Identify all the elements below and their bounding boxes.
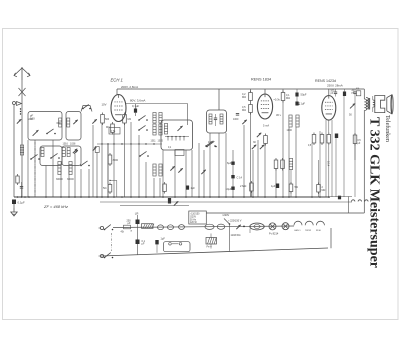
svg-text:µF: µF	[142, 243, 145, 246]
svg-text:30 v: 30 v	[276, 113, 282, 117]
svg-text:3000: 3000	[113, 159, 119, 162]
svg-text:9130: 9130	[316, 230, 322, 232]
svg-text:≈0,3v: ≈0,3v	[274, 98, 281, 102]
svg-text:200V, 2,8mA: 200V, 2,8mA	[121, 85, 138, 89]
svg-text:10,4: 10,4	[327, 161, 331, 167]
svg-text:1011: 1011	[151, 140, 157, 143]
svg-text:1µF: 1µF	[271, 185, 276, 188]
svg-text:250V, 28mA: 250V, 28mA	[327, 84, 343, 88]
svg-text:Fe ≈: Fe ≈	[207, 244, 213, 248]
svg-text:MΩ: MΩ	[242, 109, 246, 112]
svg-text:T 332 GLK Meistersuper: T 332 GLK Meistersuper	[367, 117, 382, 268]
svg-text:1µF: 1µF	[301, 102, 306, 106]
svg-text:120 W: 120 W	[190, 222, 197, 224]
svg-text:78232: 78232	[305, 230, 312, 232]
svg-text:500: 500	[105, 118, 110, 121]
svg-text:/220V: /220V	[190, 217, 196, 219]
svg-text:6µF: 6µF	[227, 161, 232, 165]
svg-text:≈ 220/150 V: ≈ 220/150 V	[228, 220, 242, 223]
svg-text:80V, 3,6mA: 80V, 3,6mA	[130, 99, 145, 103]
svg-text:2 MΩ: 2 MΩ	[240, 184, 246, 188]
svg-text:M2: M2	[128, 118, 132, 121]
svg-text:1000: 1000	[233, 118, 239, 121]
svg-text:RENS 1834: RENS 1834	[251, 78, 271, 82]
svg-text:1038: 1038	[70, 143, 76, 146]
svg-text:50t: 50t	[295, 186, 299, 189]
svg-text:30000: 30000	[67, 178, 74, 181]
svg-text:1016: 1016	[63, 143, 69, 146]
svg-text:40t: 40t	[356, 88, 360, 91]
svg-text:1µF: 1µF	[161, 238, 166, 241]
svg-text:≈220V: ≈220V	[222, 214, 230, 217]
svg-text:40t: 40t	[121, 231, 125, 234]
svg-text:1µF: 1µF	[191, 187, 196, 190]
svg-text:50t: 50t	[103, 187, 107, 190]
svg-text:10V: 10V	[102, 103, 107, 107]
svg-text:5 mA: 5 mA	[263, 124, 269, 128]
svg-text:MΩ: MΩ	[242, 96, 246, 99]
svg-text:MΩ: MΩ	[322, 189, 326, 192]
svg-text:ZF = 468 kHz: ZF = 468 kHz	[43, 204, 68, 209]
svg-text:C 14: C 14	[237, 176, 243, 180]
svg-text:µF: µF	[128, 222, 131, 225]
svg-text:LR: LR	[135, 211, 139, 215]
svg-text:ECH 1: ECH 1	[111, 78, 123, 83]
svg-text:RENS 1423d: RENS 1423d	[315, 79, 336, 83]
svg-text:1035: 1035	[158, 140, 164, 143]
svg-text:6 Te: 6 Te	[111, 129, 116, 133]
svg-text:0,1µF: 0,1µF	[18, 201, 25, 205]
svg-text:600: 600	[57, 121, 62, 125]
svg-text:Telefunken: Telefunken	[384, 115, 391, 142]
svg-text:≈110/150: ≈110/150	[190, 213, 200, 216]
svg-text:10µF: 10µF	[226, 187, 232, 191]
svg-text:1000: 1000	[287, 129, 293, 132]
svg-text:30000: 30000	[56, 178, 63, 181]
svg-text:100: 100	[208, 140, 213, 144]
svg-text:110/150v: 110/150v	[231, 234, 242, 237]
svg-text:Fv 8214: Fv 8214	[269, 231, 279, 235]
svg-text:50µF: 50µF	[301, 93, 307, 97]
svg-text:MΩ: MΩ	[286, 97, 290, 100]
svg-text:pF: pF	[30, 114, 34, 118]
svg-text:GEN 1: GEN 1	[294, 230, 301, 232]
